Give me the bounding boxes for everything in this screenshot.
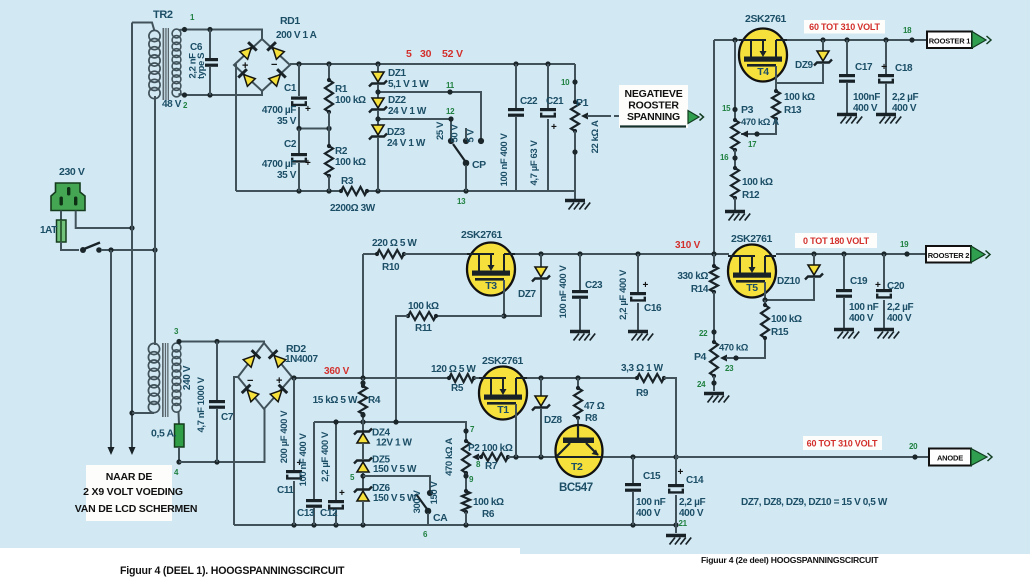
- svg-text:DZ8: DZ8: [544, 415, 563, 426]
- svg-text:+: +: [305, 158, 311, 169]
- svg-text:10: 10: [561, 78, 570, 87]
- svg-text:220 Ω 5 W: 220 Ω 5 W: [372, 238, 417, 249]
- svg-text:2,2 µF: 2,2 µF: [892, 92, 918, 103]
- switch CP contacts: [448, 138, 454, 144]
- svg-text:400 V: 400 V: [887, 313, 912, 324]
- svg-text:type S: type S: [196, 53, 207, 79]
- fuse 1AT: [57, 220, 67, 242]
- node 11 wire: [378, 92, 481, 139]
- svg-text:R3: R3: [341, 176, 354, 187]
- wire secondary node3: [178, 342, 181, 345]
- svg-text:C6: C6: [190, 42, 203, 53]
- svg-text:2,2 µF: 2,2 µF: [887, 302, 913, 313]
- svg-text:R10: R10: [382, 262, 400, 273]
- wire vertical neutral line: [131, 23, 133, 448]
- svg-text:400 V: 400 V: [892, 103, 917, 114]
- svg-text:22: 22: [699, 329, 708, 338]
- svg-text:+: +: [643, 280, 649, 291]
- svg-text:23: 23: [725, 364, 734, 373]
- transistor T1 2SK2761: [479, 367, 527, 420]
- svg-text:330 kΩ: 330 kΩ: [677, 271, 708, 282]
- capacitor C17: [846, 40, 848, 74]
- capacitor C16: [637, 254, 639, 292]
- bridge rectifier RD1: [234, 39, 290, 91]
- svg-text:360 V: 360 V: [324, 366, 350, 377]
- svg-text:DZ7: DZ7: [518, 289, 537, 300]
- svg-text:T3: T3: [485, 280, 497, 292]
- transformer bottom secondary coil: [172, 343, 181, 352]
- svg-text:35 V: 35 V: [277, 116, 297, 127]
- svg-text:T4: T4: [757, 66, 769, 78]
- capacitor C14: [675, 457, 677, 484]
- svg-text:24: 24: [697, 380, 706, 389]
- resistor R9: [635, 376, 639, 380]
- svg-text:ROOSTER: ROOSTER: [628, 100, 679, 112]
- svg-text:4,7 µF 63 V: 4,7 µF 63 V: [529, 139, 540, 185]
- svg-text:2 X9 VOLT VOEDING: 2 X9 VOLT VOEDING: [83, 486, 183, 498]
- resistor R11: [436, 315, 504, 317]
- svg-text:60 TOT 310 VOLT: 60 TOT 310 VOLT: [809, 22, 880, 32]
- transistor T2 BC547: [556, 425, 603, 477]
- svg-text:P1: P1: [576, 97, 589, 109]
- svg-text:0,5 A.: 0,5 A.: [151, 428, 177, 440]
- svg-text:VAN DE LCD SCHERMEN: VAN DE LCD SCHERMEN: [75, 503, 198, 515]
- transformer bottom core: [162, 343, 169, 417]
- arrow negatieve output: [688, 111, 699, 124]
- svg-text:R8: R8: [585, 413, 598, 424]
- svg-text:16: 16: [720, 153, 729, 162]
- ground top section: [574, 191, 576, 199]
- svg-text:11: 11: [446, 81, 455, 90]
- svg-text:C7: C7: [221, 412, 234, 423]
- zener DZ3: [377, 119, 379, 125]
- zener DZ2: [377, 92, 379, 98]
- label box ROOSTER 2: [926, 246, 971, 263]
- svg-text:1AT: 1AT: [40, 225, 57, 236]
- capacitor C22: [515, 64, 517, 108]
- svg-text:0 TOT 180 VOLT: 0 TOT 180 VOLT: [803, 236, 870, 246]
- P1 wiper: [581, 113, 588, 120]
- svg-text:C14: C14: [686, 475, 704, 486]
- wire plug left to fuse: [60, 211, 62, 221]
- svg-text:DZ2: DZ2: [388, 95, 407, 106]
- zener DZ6: [357, 491, 369, 501]
- svg-text:C19: C19: [850, 276, 868, 287]
- svg-text:BC547: BC547: [559, 482, 593, 494]
- capacitor C20: [883, 254, 885, 289]
- P2 wiper: [472, 454, 479, 461]
- svg-text:C11: C11: [277, 485, 294, 496]
- capacitor C13: [313, 422, 315, 499]
- svg-text:300 V: 300 V: [412, 490, 423, 514]
- resistor R6: [464, 489, 468, 493]
- plug 230V: [51, 183, 85, 211]
- capacitor C1: [298, 64, 300, 96]
- svg-text:P3: P3: [741, 104, 754, 116]
- svg-text:21: 21: [679, 519, 688, 528]
- wire base row: [508, 456, 676, 458]
- wire T1 out rail: [527, 377, 637, 379]
- resistor R12: [733, 166, 737, 170]
- svg-text:+: +: [881, 62, 887, 73]
- wire T5 out rail to ROOSTER2: [776, 253, 926, 255]
- capacitor C11: [293, 378, 295, 470]
- svg-text:100 kΩ: 100 kΩ: [408, 301, 439, 312]
- svg-text:TR2: TR2: [153, 9, 173, 21]
- svg-text:400 V: 400 V: [636, 508, 661, 519]
- svg-text:470 kΩ A: 470 kΩ A: [444, 438, 455, 476]
- potentiometer P2: [464, 439, 468, 443]
- svg-text:+: +: [305, 104, 311, 115]
- zener DZ7: [540, 254, 542, 267]
- svg-text:310 V: 310 V: [675, 240, 701, 251]
- svg-text:50 V: 50 V: [450, 123, 461, 142]
- ground C19: [834, 328, 854, 331]
- zener DZ8: [540, 378, 542, 396]
- svg-text:24 V 1 W: 24 V 1 W: [388, 106, 427, 117]
- svg-text:R14: R14: [691, 284, 709, 295]
- wire plug right to node: [76, 211, 132, 229]
- wire T4 drain from 310V vertical: [714, 39, 739, 41]
- svg-text:2SK2761: 2SK2761: [482, 355, 524, 367]
- svg-text:P2 100 kΩ: P2 100 kΩ: [468, 443, 513, 454]
- svg-text:2SK2761: 2SK2761: [461, 229, 503, 241]
- svg-text:T1: T1: [497, 404, 509, 416]
- potentiometer P3: [734, 40, 736, 120]
- svg-text:18: 18: [903, 26, 912, 35]
- svg-text:1N4007: 1N4007: [285, 354, 318, 365]
- wire bottom ground rail: [234, 524, 676, 526]
- svg-text:DZ9: DZ9: [795, 60, 814, 71]
- svg-text:+: +: [875, 280, 881, 291]
- svg-text:240 V: 240 V: [182, 365, 193, 390]
- svg-text:+: +: [551, 122, 557, 133]
- svg-text:400 V: 400 V: [679, 508, 704, 519]
- svg-text:CA: CA: [433, 512, 448, 524]
- svg-text:2,2 µF 400 V: 2,2 µF 400 V: [618, 269, 629, 320]
- svg-text:12: 12: [446, 107, 455, 116]
- wire 310V rail T3 to T5: [515, 253, 729, 255]
- svg-text:C2: C2: [284, 139, 297, 150]
- transformer TR2 primary coil: [149, 30, 160, 41]
- svg-text:100 nF 400 V: 100 nF 400 V: [499, 133, 510, 187]
- wire T4 source rail to ROOSTER1: [787, 39, 927, 41]
- wire RD1 plus corner down to bottom rail: [234, 65, 236, 191]
- zener DZ9: [822, 40, 824, 51]
- T4 gate wire: [775, 66, 777, 83]
- svg-text:+: +: [339, 488, 345, 499]
- svg-text:C17: C17: [855, 62, 873, 73]
- svg-text:4,7 nF 1000 V: 4,7 nF 1000 V: [196, 376, 207, 432]
- svg-text:R13: R13: [784, 105, 802, 116]
- T5 gate wire: [764, 282, 766, 300]
- svg-text:T2: T2: [571, 461, 583, 473]
- svg-text:DZ1: DZ1: [388, 68, 407, 79]
- svg-text:100 kΩ: 100 kΩ: [771, 314, 802, 325]
- red label 60 TOT 310 VOLT bottom: [803, 436, 882, 450]
- svg-text:2SK2761: 2SK2761: [731, 233, 773, 245]
- capacitor C2: [298, 129, 300, 154]
- svg-text:48 V: 48 V: [162, 99, 182, 110]
- ground C16: [628, 330, 648, 333]
- svg-text:R5: R5: [451, 383, 464, 394]
- zener DZ10: [813, 254, 815, 265]
- transformer TR2 core: [163, 28, 170, 100]
- svg-text:ROOSTER 1: ROOSTER 1: [929, 37, 971, 46]
- bridge rectifier RD2: [238, 343, 292, 409]
- switch S1 mains: [80, 247, 86, 253]
- svg-text:22 kΩ A: 22 kΩ A: [590, 120, 601, 153]
- resistor R4: [362, 378, 364, 386]
- svg-text:DZ3: DZ3: [387, 127, 406, 138]
- svg-text:C1: C1: [284, 83, 297, 94]
- capacitor C6: [209, 30, 211, 59]
- svg-text:100nF: 100nF: [853, 92, 880, 103]
- svg-text:12V 1 W: 12V 1 W: [376, 438, 413, 449]
- svg-text:RD1: RD1: [280, 15, 300, 27]
- svg-text:150 V 5 W: 150 V 5 W: [373, 493, 417, 504]
- svg-text:ROOSTER 2: ROOSTER 2: [928, 251, 970, 260]
- resistor R8: [577, 378, 579, 388]
- svg-text:ANODE: ANODE: [937, 454, 963, 463]
- P4 wiper: [720, 355, 727, 362]
- svg-text:NEGATIEVE: NEGATIEVE: [624, 88, 682, 100]
- capacitor C18: [885, 40, 887, 74]
- label box NEGATIEVE ROOSTER SPANNING: [619, 85, 688, 128]
- svg-text:60 TOT 310 VOLT: 60 TOT 310 VOLT: [807, 439, 878, 449]
- svg-text:100 kΩ: 100 kΩ: [784, 92, 815, 103]
- capacitor C7: [216, 342, 218, 401]
- svg-text:R11: R11: [415, 323, 432, 334]
- svg-text:150 V: 150 V: [429, 481, 440, 505]
- potentiometer P1: [574, 64, 576, 102]
- ground C17: [837, 113, 857, 116]
- ground C18: [876, 113, 896, 116]
- svg-text:19: 19: [900, 240, 909, 249]
- svg-text:−: −: [271, 59, 277, 71]
- svg-text:120 Ω 5 W: 120 Ω 5 W: [431, 364, 476, 375]
- svg-text:200 V 1 A: 200 V 1 A: [276, 30, 317, 41]
- svg-text:NAAR DE: NAAR DE: [106, 471, 153, 483]
- wire rail R10 to T3: [404, 253, 467, 255]
- transformer secondary bottom primary coil: [148, 343, 159, 354]
- svg-text:13: 13: [457, 197, 466, 206]
- ground C20: [874, 328, 894, 331]
- svg-text:+: +: [242, 60, 248, 72]
- wire AC bottom rail: [179, 409, 265, 462]
- wire 360V rail: [292, 377, 449, 378]
- resistor R7: [479, 455, 483, 459]
- svg-text:5: 5: [406, 48, 412, 60]
- svg-text:2,2 µF 400 V: 2,2 µF 400 V: [320, 431, 331, 482]
- wire node1 top: [185, 30, 263, 40]
- svg-text:100 kΩ: 100 kΩ: [473, 497, 504, 508]
- wire anode row: [676, 456, 929, 458]
- capacitor C15: [632, 457, 634, 483]
- svg-text:R6: R6: [482, 509, 495, 520]
- fuse 0,5A: [175, 424, 185, 447]
- svg-text:C20: C20: [887, 281, 905, 292]
- svg-text:C16: C16: [644, 303, 662, 314]
- svg-text:100 kΩ: 100 kΩ: [335, 95, 366, 106]
- wire bottom primary ends: [132, 412, 154, 414]
- svg-text:400 V: 400 V: [853, 103, 878, 114]
- resistor R14: [713, 254, 715, 266]
- svg-text:CP: CP: [472, 159, 486, 171]
- svg-text:2SK2761: 2SK2761: [745, 13, 787, 25]
- svg-text:100 nF 400 V: 100 nF 400 V: [558, 265, 569, 319]
- capacitor C19: [843, 254, 845, 289]
- svg-text:Figuur 4 (2e deel) HOOGSPANNI: Figuur 4 (2e deel) HOOGSPANNINGSCIRCUIT: [701, 555, 879, 565]
- transistor T5 2SK2761: [728, 245, 776, 298]
- switch CA: [363, 476, 430, 490]
- svg-text:2,2 µF: 2,2 µF: [679, 497, 705, 508]
- ground C14: [666, 534, 686, 537]
- node 12 wire: [378, 119, 451, 139]
- svg-text:35 V: 35 V: [277, 170, 297, 181]
- transformer TR2 secondary coil: [172, 29, 181, 38]
- svg-text:100 nF: 100 nF: [849, 302, 879, 313]
- resistor R3: [339, 189, 343, 193]
- svg-text:15: 15: [722, 104, 731, 113]
- transistor T4 2SK2761: [739, 29, 787, 82]
- svg-text:C15: C15: [643, 471, 661, 482]
- svg-text:DZ10: DZ10: [777, 276, 801, 287]
- svg-text:P4: P4: [694, 351, 707, 363]
- svg-text:C21: C21: [546, 96, 564, 107]
- svg-text:C18: C18: [895, 63, 913, 74]
- wire RD2 minus to ground rail: [234, 377, 238, 525]
- wire vertical mains left arrow: [110, 250, 112, 447]
- T3 gate wire: [503, 280, 505, 316]
- svg-text:24 V 1 W: 24 V 1 W: [387, 138, 426, 149]
- svg-text:2200Ω 3W: 2200Ω 3W: [330, 203, 376, 214]
- resistor R1: [328, 64, 330, 80]
- label box ROOSTER 1: [927, 32, 972, 49]
- svg-text:30: 30: [420, 48, 432, 60]
- wire secondary bottom to fuse: [178, 412, 181, 424]
- ground C23: [570, 330, 590, 333]
- svg-text:Figuur 4 (DEEL 1). HOOGSPANNI: Figuur 4 (DEEL 1). HOOGSPANNINGSCIRCUIT: [120, 565, 345, 577]
- wire reference node line: [314, 422, 466, 441]
- resistor R13: [775, 83, 777, 91]
- svg-text:3,3 Ω 1 W: 3,3 Ω 1 W: [621, 363, 664, 374]
- wire node2 bottom: [185, 91, 263, 95]
- resistor R10 with corner to 360V rail: [363, 253, 377, 255]
- svg-text:R2: R2: [335, 146, 348, 157]
- svg-text:20: 20: [909, 442, 918, 451]
- svg-text:C23: C23: [585, 280, 603, 291]
- svg-text:4700 µF: 4700 µF: [262, 159, 296, 170]
- capacitor C21: [547, 64, 549, 108]
- svg-text:R7: R7: [485, 461, 498, 472]
- svg-text:25 V: 25 V: [435, 121, 446, 140]
- svg-text:DZ7, DZ8, DZ9, DZ10 = 15 V 0,5: DZ7, DZ8, DZ9, DZ10 = 15 V 0,5 W: [741, 497, 888, 508]
- svg-text:R15: R15: [771, 327, 789, 338]
- svg-text:−: −: [247, 375, 253, 387]
- svg-text:R1: R1: [335, 84, 348, 95]
- T1 gate wire: [515, 404, 517, 457]
- svg-text:150 V 5 W: 150 V 5 W: [373, 464, 417, 475]
- svg-text:230 V: 230 V: [59, 166, 85, 178]
- red label 0 TOT 180 VOLT: [795, 233, 877, 248]
- svg-text:100 nF 400 V: 100 nF 400 V: [298, 433, 309, 487]
- wire long vertical 310V to T4: [713, 40, 715, 254]
- ground P4: [704, 392, 724, 395]
- capacitor C12: [335, 422, 337, 500]
- svg-text:4700 µF: 4700 µF: [262, 105, 296, 116]
- svg-text:17: 17: [748, 140, 757, 149]
- svg-text:100 kΩ: 100 kΩ: [742, 177, 773, 188]
- svg-text:200 µF 400 V: 200 µF 400 V: [279, 410, 290, 463]
- svg-text:47 Ω: 47 Ω: [584, 401, 605, 412]
- resistor R2: [328, 129, 330, 147]
- svg-text:52 V: 52 V: [442, 48, 463, 60]
- svg-text:T5: T5: [746, 282, 758, 294]
- svg-text:SPANNING: SPANNING: [627, 111, 680, 123]
- resistor R5: [447, 376, 451, 380]
- ground R12: [725, 210, 745, 213]
- wire vertical switched line: [154, 96, 156, 345]
- svg-text:+: +: [678, 467, 684, 478]
- transistor T3 2SK2761: [467, 243, 515, 296]
- label NAAR DE box: [86, 465, 172, 521]
- wire top rail negative: [290, 63, 575, 65]
- resistor R15: [764, 300, 766, 305]
- svg-text:5,1 V 1 W: 5,1 V 1 W: [388, 79, 429, 90]
- svg-text:R4: R4: [368, 395, 381, 406]
- svg-text:470 kΩ: 470 kΩ: [719, 343, 749, 354]
- svg-text:5 V: 5 V: [466, 128, 477, 142]
- label box ANODE: [929, 449, 971, 466]
- zener DZ5: [357, 462, 369, 472]
- red label 60 TOT 310 VOLT top: [804, 20, 885, 34]
- wire switch to verticals: [101, 249, 155, 251]
- svg-text:15 kΩ 5 W: 15 kΩ 5 W: [313, 395, 358, 406]
- svg-text:R12: R12: [742, 190, 760, 201]
- svg-text:100 kΩ: 100 kΩ: [335, 157, 366, 168]
- svg-text:+: +: [276, 375, 282, 387]
- svg-text:400 V: 400 V: [849, 313, 874, 324]
- wire fuse to switch: [61, 242, 79, 250]
- svg-text:470 kΩ A: 470 kΩ A: [741, 117, 779, 128]
- zener DZ4: [357, 433, 369, 443]
- svg-text:C22: C22: [520, 96, 538, 107]
- potentiometer P4: [712, 340, 716, 344]
- svg-text:100 nF: 100 nF: [636, 497, 666, 508]
- wire C1 C2 node: [299, 128, 329, 130]
- svg-text:R9: R9: [636, 388, 649, 399]
- wire bottom rail top section: [236, 190, 341, 192]
- capacitor C23: [579, 254, 581, 290]
- svg-text:C13: C13: [297, 508, 315, 519]
- svg-text:C12: C12: [320, 508, 338, 519]
- zener DZ1: [377, 64, 379, 72]
